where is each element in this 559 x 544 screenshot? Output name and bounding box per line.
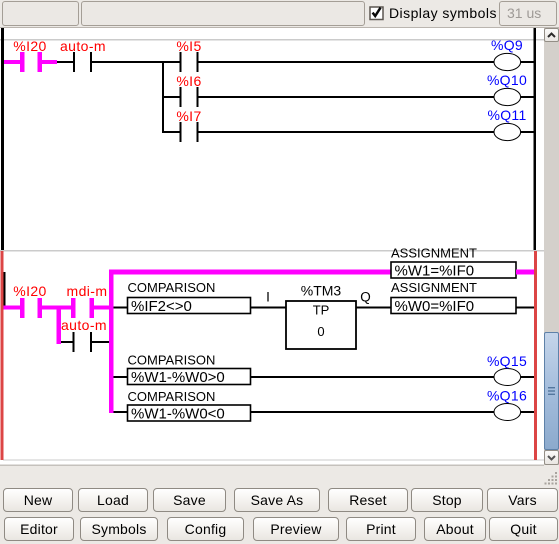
svg-text:auto-m: auto-m: [60, 38, 106, 54]
svg-text:COMPARISON: COMPARISON: [128, 353, 216, 368]
svg-text:%I20: %I20: [13, 283, 47, 299]
wire bus to comparison row 3: [114, 376, 128, 378]
wire branch to auto-m rung 2: [61, 341, 73, 343]
svg-text:%TM3: %TM3: [301, 283, 342, 299]
toolbar combo box (empty): [2, 1, 79, 26]
wire branch to %I6: [164, 96, 180, 98]
wire %I5 to coil %Q9: [199, 61, 494, 63]
svg-text:ASSIGNMENT: ASSIGNMENT: [391, 280, 477, 295]
wire coil %Q9 to rail: [521, 61, 534, 63]
entry scan time 31 us: [499, 1, 557, 26]
canvas background: [0, 28, 544, 466]
wire mdi-m to bus (powered): [94, 306, 109, 310]
svg-text:%W1-%W0<0: %W1-%W0<0: [131, 405, 225, 422]
coil %Q9: [494, 53, 521, 70]
svg-text:%W0=%IF0: %W0=%IF0: [395, 298, 475, 315]
comparison block %IF2<>0: [128, 298, 251, 316]
wire rail to contact %I20 rung 2 (powered): [4, 306, 21, 310]
rung 1 right power rail: [534, 28, 537, 250]
rung 2 selected-rung left rail (red): [1, 251, 4, 460]
rung separator line (bottom of rung 2): [3, 459, 544, 460]
branch vertical wire: [162, 61, 164, 133]
wire stub after %I20 (powered): [42, 60, 57, 64]
coil %Q11: [494, 123, 521, 140]
svg-text:%Q15: %Q15: [487, 353, 527, 369]
button Quit: [489, 517, 558, 541]
wire auto-m to branch: [92, 61, 179, 63]
wire coil %Q10 to rail: [521, 96, 534, 98]
svg-text:I: I: [266, 290, 270, 305]
rung 2 selected-rung right rail (red): [534, 251, 537, 460]
assignment block %W1=%IF0: [391, 262, 516, 280]
button Preview: [253, 517, 339, 541]
scrollbar trough: [544, 28, 559, 465]
svg-text:%Q10: %Q10: [487, 72, 527, 88]
svg-text:%I6: %I6: [176, 73, 201, 89]
contact auto-m (rung 1): [73, 52, 92, 72]
rung 2 left rail black segment: [4, 272, 6, 308]
svg-text:%W1-%W0>0: %W1-%W0>0: [131, 369, 225, 386]
svg-text:COMPARISON: COMPARISON: [128, 280, 216, 295]
svg-text:Q: Q: [360, 290, 371, 305]
wire coil %Q15 to rail: [521, 376, 534, 378]
toolbar bottom border: [0, 27, 559, 28]
scrollbar up button: [544, 28, 559, 42]
toolbar entry (empty): [81, 1, 365, 26]
wire auto-m to bus rung 2: [92, 341, 109, 343]
wire rail to contact %I20 (powered): [4, 60, 20, 64]
button New: [3, 488, 73, 512]
scrollbar down button: [544, 450, 559, 465]
button Load: [78, 488, 148, 512]
wire branch to %I7: [164, 131, 180, 133]
comparison block %W1-%W0<0: [128, 405, 251, 422]
svg-text:%I7: %I7: [176, 108, 201, 124]
coil %Q16: [494, 404, 521, 421]
wire %I6 to coil %Q10: [199, 96, 494, 98]
svg-text:%Q16: %Q16: [487, 388, 527, 404]
wire coil %Q11 to rail: [521, 131, 534, 133]
svg-text:COMPARISON: COMPARISON: [128, 389, 216, 404]
wire comparison to coil %Q15: [251, 376, 495, 378]
wire timer Q to assignment %W0: [356, 307, 391, 309]
svg-text:ASSIGNMENT: ASSIGNMENT: [391, 246, 477, 261]
assignment block %W0=%IF0: [391, 298, 516, 316]
wire %I7 to coil %Q11: [199, 131, 494, 133]
branch down vertical wire (powered): [57, 306, 62, 345]
wire to contact mdi-m (powered): [61, 306, 71, 310]
timer block %TM3: [286, 301, 356, 349]
contact %I6: [180, 87, 199, 107]
svg-text:%Q9: %Q9: [491, 37, 523, 53]
button Config: [167, 517, 244, 541]
bus vertical wire (powered): [109, 270, 114, 414]
wire stub after %I20 rung 2: [42, 306, 57, 310]
svg-text:%I20: %I20: [13, 38, 47, 54]
button Print: [346, 517, 416, 541]
contact %I7: [180, 122, 199, 142]
coil %Q10: [494, 88, 521, 105]
bus to assignment %W1 wire (powered): [109, 270, 391, 275]
label Display symbols: [389, 5, 497, 21]
contact auto-m (rung 2): [73, 332, 93, 352]
wire %W0 block to rail: [516, 307, 534, 309]
svg-text:TP: TP: [313, 303, 330, 318]
scrollbar thumb: [544, 332, 559, 450]
button Editor: [4, 517, 74, 541]
window resize grip: [544, 471, 559, 487]
coil %Q15: [494, 369, 521, 386]
drawing area bottom border: [0, 465, 544, 466]
button Save As: [234, 488, 320, 512]
svg-text:0: 0: [317, 324, 324, 339]
button Save: [153, 488, 226, 512]
contact %I20 (rung 1, powered): [20, 52, 42, 72]
contact %I5: [180, 52, 199, 72]
wire coil %Q16 to rail: [521, 411, 534, 413]
contact mdi-m (powered): [71, 298, 94, 318]
svg-text:%I5: %I5: [176, 38, 201, 54]
button Stop: [411, 488, 483, 512]
svg-text:mdi-m: mdi-m: [67, 283, 108, 299]
wire to contact auto-m: [57, 61, 73, 63]
button Vars: [487, 488, 558, 512]
contact %I20 (rung 2, powered): [20, 298, 42, 318]
checkbox Display symbols (checked): [369, 5, 385, 21]
svg-text:%IF2<>0: %IF2<>0: [131, 298, 192, 315]
comparison block %W1-%W0>0: [128, 369, 251, 386]
svg-text:auto-m: auto-m: [61, 317, 107, 333]
button Symbols: [80, 517, 158, 541]
svg-text:%Q11: %Q11: [487, 107, 526, 123]
toolbar background: [0, 0, 559, 28]
rung separator line (top of rung 2): [0, 250, 544, 251]
svg-text:%W1=%IF0: %W1=%IF0: [395, 263, 475, 280]
button About: [424, 517, 486, 541]
button Reset: [328, 488, 408, 512]
ladder drawing area: [0, 28, 544, 466]
wire %W1 block to rail (powered): [516, 270, 534, 275]
rung 1 left power rail: [1, 28, 4, 250]
rung separator line (top of rung 1): [0, 39, 544, 40]
wire comparison to timer input I: [251, 307, 287, 309]
wire bus to comparison %IF2: [114, 307, 128, 309]
wire comparison to coil %Q16: [251, 411, 495, 413]
wire bus to comparison row 4: [114, 411, 128, 413]
